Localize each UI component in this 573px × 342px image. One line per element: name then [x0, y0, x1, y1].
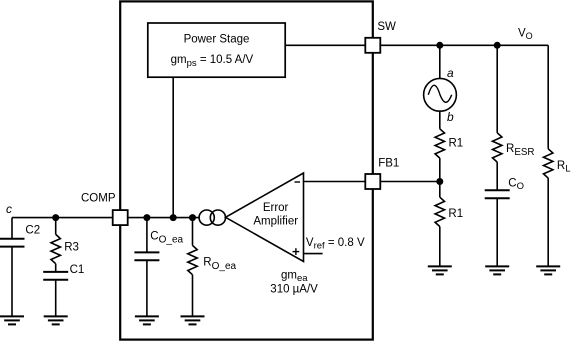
svg-text:c: c	[6, 202, 12, 216]
ground under R1	[428, 266, 452, 274]
wire: RO_ea branch	[192, 218, 194, 246]
svg-text:a: a	[447, 66, 454, 80]
svg-text:b: b	[447, 110, 454, 124]
wire: RL bottom to ground	[547, 178, 549, 266]
node power stage junction	[170, 214, 177, 221]
pin COMP	[113, 210, 128, 225]
svg-text:COMP: COMP	[81, 193, 116, 205]
svg-text:RESR: RESR	[506, 143, 534, 158]
capacitor C2	[0, 239, 25, 247]
node Vo-RESR junction	[494, 42, 501, 49]
wire: Vref stub	[304, 253, 323, 255]
power stage box U1	[148, 23, 285, 77]
wire: C1 to ground	[55, 280, 57, 317]
wire: R1 bottom to ground	[439, 227, 441, 267]
svg-text:310 µA/V: 310 µA/V	[270, 284, 318, 296]
svg-text:R1: R1	[448, 208, 463, 220]
wire: power stage output to SW pin	[285, 44, 366, 46]
wire: R3 to C1	[55, 264, 57, 272]
node Vo-sine junction	[436, 42, 443, 49]
node CO_ea junction	[143, 214, 150, 221]
wire: RESR bottom to CO	[496, 162, 498, 190]
svg-text:CO_ea: CO_ea	[150, 230, 183, 245]
ground under C2	[0, 316, 24, 324]
svg-text:RL: RL	[557, 160, 571, 175]
svg-text:CO: CO	[508, 177, 524, 192]
svg-text:C1: C1	[70, 264, 85, 276]
wire: CO_ea branch	[146, 218, 148, 253]
wire: FB1 pin to divider node	[380, 181, 440, 183]
svg-text:SW: SW	[377, 21, 396, 33]
gm output circles	[199, 210, 214, 225]
error amplifier U2 triangle	[226, 173, 304, 262]
svg-text:C2: C2	[25, 224, 40, 236]
minus sign at inverting input	[295, 181, 301, 183]
pin SW	[365, 38, 380, 53]
resistor R1 (top)	[435, 129, 444, 158]
capacitor C1	[43, 272, 68, 280]
node RO_ea junction	[189, 214, 196, 221]
resistor R1 (bottom)	[435, 197, 444, 226]
wire: R3 branch	[55, 218, 57, 235]
ground under C1	[44, 316, 68, 324]
plus sign at non-inverting input	[293, 248, 300, 255]
wire: error amp inverting input to FB1	[304, 181, 367, 183]
capacitor CO	[485, 190, 510, 198]
svg-text:FB1: FB1	[378, 158, 399, 170]
svg-text:Error: Error	[263, 202, 289, 214]
wire: SW to output rail Vo	[380, 44, 548, 46]
ground under CO	[485, 266, 509, 274]
svg-text:Power Stage: Power Stage	[184, 34, 250, 46]
wire: power stage bottom to COMP rail	[172, 77, 174, 217]
sine source (a-b perturbation source)	[424, 78, 457, 111]
wire: Vo rail down to RL	[547, 45, 549, 149]
svg-text:Amplifier: Amplifier	[253, 216, 298, 228]
wire: CO bottom to ground	[496, 198, 498, 266]
svg-text:Vref = 0.8 V: Vref = 0.8 V	[306, 237, 365, 252]
ground under CO_ea	[135, 316, 159, 324]
ground under RO_ea	[181, 316, 205, 324]
wire: C2 branch	[11, 218, 13, 239]
pin FB1	[365, 174, 380, 189]
ground under RL	[536, 266, 560, 274]
capacitor CO_ea	[134, 252, 159, 260]
svg-text:gmea: gmea	[281, 269, 308, 284]
wire: COMP rail	[12, 217, 199, 219]
svg-text:R1: R1	[449, 138, 464, 150]
wire: sine source bottom to R1 top	[439, 111, 441, 129]
wire: R1 to FB node	[439, 158, 441, 197]
wire: node to sine source top	[439, 45, 441, 78]
wire: node to RESR top	[496, 45, 498, 133]
node R3 junction	[52, 214, 59, 221]
node FB divider junction	[436, 178, 443, 185]
resistor RO_ea	[188, 245, 197, 274]
svg-text:RO_ea: RO_ea	[203, 257, 236, 272]
svg-text:VO: VO	[518, 28, 533, 41]
resistor RL	[544, 149, 553, 178]
svg-text:R3: R3	[64, 241, 79, 253]
IC outer box	[120, 1, 373, 339]
resistor R3	[51, 234, 60, 263]
resistor RESR	[493, 133, 502, 162]
